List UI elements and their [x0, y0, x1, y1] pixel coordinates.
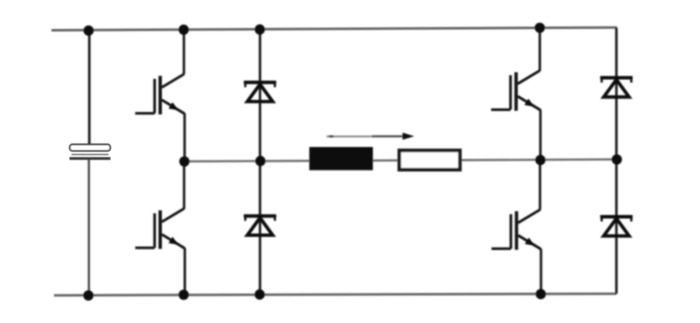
wire: top DC rail [52, 28, 618, 31]
node: bottom rail / D2 junction [255, 289, 265, 299]
node: top rail / Q3 collector junction [535, 23, 545, 33]
diode D1 (top left freewheel) [244, 82, 276, 101]
wire: Q1 collector lead [183, 30, 186, 74]
wire: right diode leg (through D3 and D4) [615, 28, 618, 294]
node: mid line / right leg junction [535, 155, 545, 165]
wire: bottom DC rail [54, 294, 617, 296]
node: bottom rail / capacitor junction [83, 290, 93, 300]
diode D3 (top right freewheel) [600, 78, 632, 97]
wire: middle output node (load line) [184, 159, 617, 161]
wire: Q2 emitter lead to bottom rail [184, 248, 187, 295]
IGBT Q3 (top right) [491, 71, 541, 111]
node: bottom rail / Q2 emitter junction [179, 290, 189, 300]
wire: Q3 emitter lead to mid node [539, 110, 542, 160]
wire: Q4 emitter lead to bottom rail [540, 249, 543, 294]
capacitor C1 (DC link) [70, 144, 111, 158]
IGBT Q2 (bottom left) [135, 209, 185, 249]
wire: capacitor branch lower lead [88, 159, 90, 296]
wire: Q2 collector lead from mid node [183, 161, 186, 209]
node: top rail / capacitor junction [83, 25, 93, 35]
wire: left diode leg (through D1 and D2) [259, 30, 262, 295]
inductor L load (filled black box) [309, 147, 373, 170]
resistor R load (open box) [399, 150, 460, 169]
wire: capacitor branch upper lead [88, 30, 91, 144]
node: top rail / D1 junction [255, 24, 265, 34]
node: bottom rail / Q4 emitter junction [536, 289, 546, 299]
wire: Q3 collector lead [539, 28, 542, 71]
node: mid line / D3-D4 junction [612, 154, 622, 164]
node: mid line / left leg junction [179, 156, 189, 166]
wire: Q4 collector lead from mid node [539, 160, 542, 210]
diode D2 (bottom left freewheel) [244, 216, 276, 235]
IGBT Q1 (top left) [135, 74, 185, 114]
IGBT Q4 (bottom right) [492, 210, 542, 250]
wire: Q1 emitter lead to mid node [183, 113, 186, 161]
node: mid line / D1-D2 junction [255, 156, 265, 166]
current arrow i [327, 133, 415, 140]
diode D4 (bottom right freewheel) [600, 217, 632, 236]
node: top rail / Q1 collector junction [179, 25, 189, 35]
